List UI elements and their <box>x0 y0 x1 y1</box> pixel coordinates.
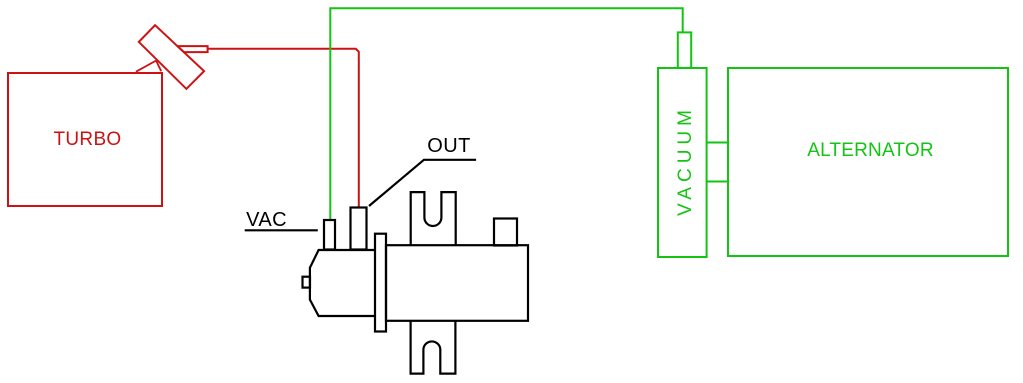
link upper between VACUUM and ALTERNATOR <box>707 142 728 144</box>
OUT port nipple on valve <box>351 208 367 250</box>
valve flange <box>375 234 386 332</box>
label VACUUM (vertical) <box>675 105 696 216</box>
valve top-right stub <box>494 219 517 246</box>
hose funnel line upper <box>136 61 156 72</box>
block TURBO (red box) <box>8 73 162 206</box>
svg-text:TURBO: TURBO <box>54 129 122 150</box>
connector nipple on check valve <box>178 46 208 52</box>
svg-text:ALTERNATOR: ALTERNATOR <box>807 140 934 161</box>
valve main body <box>386 245 528 321</box>
svg-text:OUT: OUT <box>427 135 470 157</box>
wire (red hose) from connector to OUT port <box>208 49 359 207</box>
svg-text:VACUUM: VACUUM <box>675 105 696 216</box>
leader line VAC <box>245 229 318 231</box>
label ALTERNATOR <box>807 140 934 161</box>
port on vacuum pump top <box>678 32 691 68</box>
label TURBO <box>54 129 122 150</box>
svg-text:VAC: VAC <box>246 209 287 231</box>
VAC port nipple on valve <box>324 220 335 250</box>
valve left cap (chamfered) <box>310 250 375 316</box>
valve bottom bracket fork <box>411 321 456 374</box>
label VAC <box>246 209 287 231</box>
label OUT <box>427 135 470 157</box>
leader line OUT <box>369 160 476 206</box>
block ALTERNATOR (green box) <box>728 68 1008 256</box>
hose funnel line lower <box>156 60 161 71</box>
wire (green hose) from VAC port to vacuum pump port <box>330 8 682 219</box>
valve nub on left cap <box>303 277 311 288</box>
valve top bracket fork <box>411 192 456 245</box>
link lower between VACUUM and ALTERNATOR <box>707 181 728 183</box>
block VACUUM (green box) <box>658 68 707 257</box>
check valve (tilted rectangle) <box>139 25 204 89</box>
